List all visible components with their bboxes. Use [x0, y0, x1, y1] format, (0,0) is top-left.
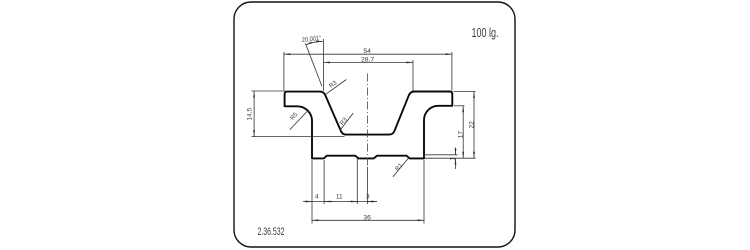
chain extension line x357 [356, 158, 358, 205]
angle 20,001 arc [306, 41, 323, 45]
svg-text:14,5: 14,5 [246, 107, 253, 120]
dim 36 line [312, 219, 424, 221]
dim 14,5 extension lines [252, 90, 286, 92]
svg-text:2.36.532: 2.36.532 [258, 226, 285, 238]
leader R1 [393, 158, 409, 177]
svg-text:22: 22 [468, 121, 475, 129]
chain extension line x312 [311, 160, 313, 224]
svg-text:11: 11 [336, 194, 343, 201]
dim 54 extension lines [283, 52, 285, 91]
leader R3 groove [340, 113, 353, 130]
angle 20,001 slope extension line [305, 43, 321, 86]
leader R5 [290, 112, 307, 130]
dim 14,5 line [253, 91, 255, 137]
bottom extension line right [425, 157, 476, 159]
svg-text:28,7: 28,7 [361, 56, 374, 63]
svg-text:1: 1 [450, 157, 457, 161]
dim 17 line [462, 106, 464, 158]
centerline extension to chain [366, 167, 368, 204]
dim 1 extension line upper [423, 154, 458, 156]
dim 28,7 line [324, 61, 414, 63]
dim 1 line with outside arrows [455, 148, 457, 155]
dim 28,7 extension lines [412, 60, 414, 91]
drawing sheet border [234, 2, 515, 247]
centerline [366, 74, 368, 168]
svg-text:36: 36 [363, 215, 371, 222]
svg-text:3: 3 [366, 194, 370, 201]
chain extension line x324 [323, 160, 325, 204]
svg-text:4: 4 [315, 194, 319, 201]
dim 22 line [473, 92, 475, 159]
dim 22 extension line top [454, 91, 476, 93]
svg-text:17: 17 [457, 131, 464, 139]
svg-text:100 lg.: 100 lg. [472, 25, 499, 40]
dim 54 line [284, 53, 452, 55]
dim 17 extension line top [454, 105, 465, 107]
profile outline [285, 92, 453, 159]
leader R3 top [325, 80, 346, 95]
dim 36 extension line right [423, 160, 425, 224]
chain dim line 4-11-3 [303, 201, 312, 203]
svg-text:54: 54 [363, 48, 371, 55]
